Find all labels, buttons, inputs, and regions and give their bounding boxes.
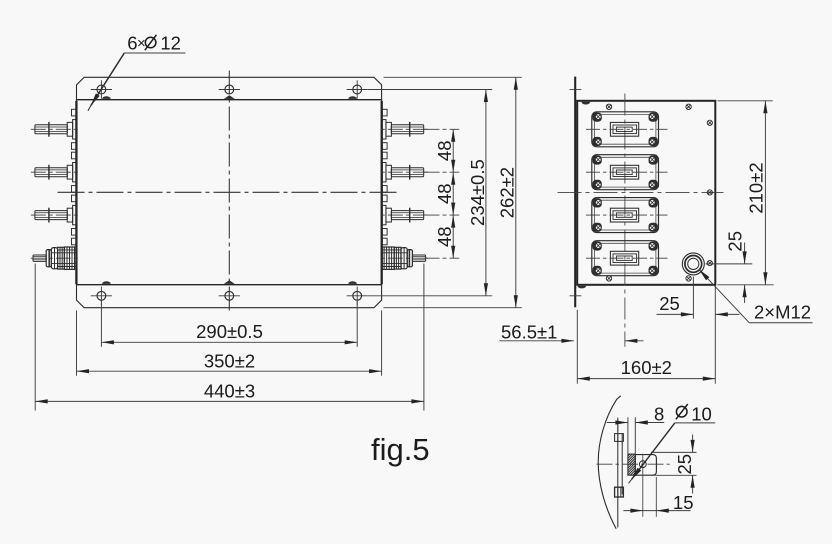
svg-text:290±0.5: 290±0.5 <box>196 321 263 342</box>
svg-text:210±2: 210±2 <box>746 162 767 213</box>
svg-text:25: 25 <box>659 293 680 314</box>
svg-text:25: 25 <box>725 231 746 252</box>
svg-text:10: 10 <box>691 403 712 424</box>
svg-text:350±2: 350±2 <box>204 350 255 371</box>
svg-text:48: 48 <box>434 226 455 247</box>
svg-text:262±2: 262±2 <box>497 167 518 218</box>
svg-text:160±2: 160±2 <box>621 357 672 378</box>
svg-text:2×M12: 2×M12 <box>754 302 811 323</box>
svg-text:12: 12 <box>160 33 181 54</box>
svg-text:fig.5: fig.5 <box>371 432 430 467</box>
svg-text:48: 48 <box>434 183 455 204</box>
svg-text:56.5±1: 56.5±1 <box>501 321 557 342</box>
svg-text:6: 6 <box>127 33 137 54</box>
svg-text:8: 8 <box>654 403 664 424</box>
svg-text:15: 15 <box>673 492 694 513</box>
svg-text:25: 25 <box>674 454 695 475</box>
svg-text:48: 48 <box>434 141 455 162</box>
svg-text:234±0.5: 234±0.5 <box>467 159 488 226</box>
svg-text:440±3: 440±3 <box>204 380 255 401</box>
